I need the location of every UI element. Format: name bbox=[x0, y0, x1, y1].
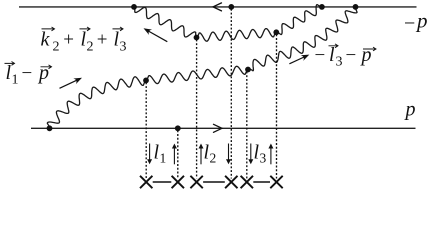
cross x3R bbox=[270, 176, 282, 188]
svg-text:p: p bbox=[415, 9, 428, 33]
small arrow l3 up bbox=[270, 146, 272, 164]
cross x2L bbox=[190, 176, 202, 188]
dotted line l3 right bbox=[276, 34, 278, 178]
small arrow l3 down bbox=[250, 144, 252, 162]
vertex S4 bbox=[245, 67, 251, 73]
svg-text:3: 3 bbox=[260, 151, 267, 166]
bottom line arrow (right) bbox=[214, 124, 223, 132]
small arrow l1 up bbox=[173, 146, 175, 164]
vertex B bbox=[319, 4, 325, 10]
svg-text:2: 2 bbox=[53, 39, 60, 54]
vertex F bbox=[175, 125, 181, 131]
svg-text:+: + bbox=[63, 30, 74, 51]
svg-text:−: − bbox=[346, 45, 357, 66]
vertex S2 bbox=[273, 29, 279, 35]
svg-text:p: p bbox=[360, 44, 372, 66]
small arrow l1 down bbox=[149, 144, 151, 162]
svg-text:+: + bbox=[97, 30, 108, 51]
vertex S1 bbox=[194, 35, 200, 41]
momentum arrow -l3-p bbox=[289, 57, 305, 64]
vertex E bbox=[228, 4, 234, 10]
svg-text:p: p bbox=[404, 99, 416, 121]
svg-text:3: 3 bbox=[336, 55, 343, 70]
vertex A bbox=[131, 4, 137, 10]
svg-text:2: 2 bbox=[210, 151, 217, 166]
vertex S3 bbox=[143, 78, 149, 84]
svg-text:p: p bbox=[37, 62, 49, 84]
top line arrow (left) bbox=[213, 3, 222, 11]
momentum arrow l1-p bbox=[60, 80, 78, 89]
dotted line l1 right bbox=[177, 130, 179, 178]
vertex C bbox=[47, 125, 53, 131]
svg-text:−: − bbox=[404, 13, 415, 35]
connector l1 bbox=[153, 181, 172, 183]
cross x1L bbox=[140, 176, 152, 188]
dotted line l3 left bbox=[246, 72, 248, 179]
dotted line l1 left bbox=[145, 82, 147, 178]
svg-text:−: − bbox=[22, 63, 33, 84]
svg-text:1: 1 bbox=[160, 151, 167, 166]
top eikonal line (-p) bbox=[19, 6, 417, 8]
momentum arrow k2+l2+l3 bbox=[147, 31, 167, 42]
dotted line l2 left bbox=[196, 40, 198, 179]
dotted line l2 right bbox=[230, 9, 232, 179]
bottom eikonal line (p) bbox=[31, 127, 416, 129]
cross x2R bbox=[225, 176, 237, 188]
svg-text:−: − bbox=[315, 45, 326, 66]
vertex D bbox=[353, 4, 359, 10]
svg-text:k: k bbox=[41, 29, 51, 51]
connector l2 bbox=[203, 181, 225, 183]
gluon G1 (top loop) bbox=[134, 5, 322, 42]
svg-text:3: 3 bbox=[120, 39, 127, 54]
gluon G2 (from bottom line) bbox=[47, 7, 357, 128]
small arrow l2 up bbox=[200, 146, 202, 164]
small arrow l2 down bbox=[228, 144, 230, 162]
connector l3 bbox=[253, 181, 270, 183]
svg-text:1: 1 bbox=[12, 73, 19, 88]
svg-text:l: l bbox=[329, 44, 335, 66]
svg-text:2: 2 bbox=[87, 39, 94, 54]
cross x1R bbox=[172, 176, 184, 188]
cross x3L bbox=[241, 176, 253, 188]
